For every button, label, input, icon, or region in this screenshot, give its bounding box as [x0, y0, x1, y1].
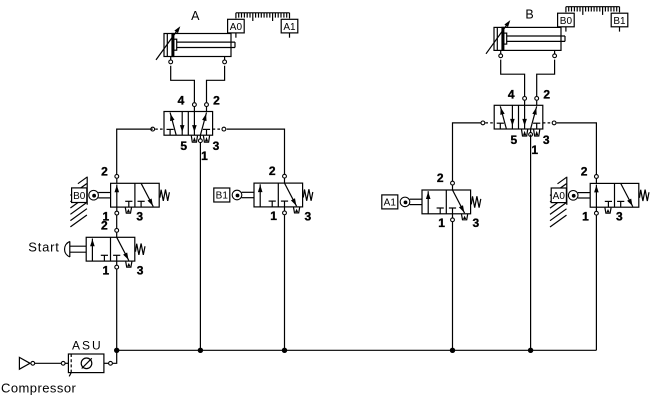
svg-text:1: 1 — [438, 216, 445, 230]
junction bus / A1 port 1 — [450, 348, 455, 353]
svg-text:2: 2 — [213, 94, 220, 108]
svg-text:4: 4 — [508, 88, 515, 102]
valve A0 3/2 roller (actuated) — [550, 165, 649, 228]
wire valve A0 port 1 to supply bus — [595, 215, 597, 350]
wire compressor to ASU — [35, 362, 61, 364]
air service unit ASU — [61, 354, 112, 376]
svg-text:B1: B1 — [613, 16, 626, 27]
svg-text:2: 2 — [543, 88, 550, 102]
cylinder B — [486, 20, 565, 58]
svg-text:3: 3 — [543, 133, 550, 147]
svg-text:2: 2 — [581, 165, 588, 179]
svg-text:2: 2 — [101, 218, 108, 232]
svg-text:5: 5 — [511, 133, 518, 147]
wire V1 left pilot to valve B0 port 2 — [117, 129, 153, 174]
sensor A1 — [281, 19, 298, 37]
ruler B — [566, 7, 620, 15]
svg-text:1: 1 — [270, 209, 277, 223]
svg-text:1: 1 — [102, 263, 109, 277]
svg-text:B0: B0 — [73, 191, 86, 202]
svg-text:3: 3 — [213, 139, 220, 153]
svg-text:4: 4 — [178, 94, 185, 108]
valve V2 5/2 for cylinder B — [481, 88, 556, 157]
valve V1 5/2 for cylinder A — [151, 94, 226, 163]
compressor — [19, 357, 34, 369]
svg-text:3: 3 — [473, 216, 480, 230]
svg-text:5: 5 — [180, 139, 187, 153]
svg-text:3: 3 — [616, 210, 623, 224]
svg-text:A1: A1 — [283, 22, 296, 33]
wire valve B0 port 1 to Start port 2 — [116, 215, 118, 228]
wire cylinder A right port to V1 port 2 — [207, 66, 225, 103]
valve A1 3/2 roller — [382, 171, 481, 230]
svg-text:Compressor: Compressor — [1, 380, 77, 395]
wire V2 right pilot to valve A0 port 2 — [557, 123, 597, 174]
wire valve A1 port 1 to supply bus — [452, 222, 454, 350]
junction bus / ASU / Start — [114, 348, 119, 353]
valve Start 3/2 push-button — [65, 218, 145, 277]
svg-text:Start: Start — [28, 240, 59, 255]
svg-text:1: 1 — [201, 149, 208, 163]
wire V1 right pilot to valve B1 port 2 — [227, 129, 285, 174]
svg-text:3: 3 — [305, 209, 312, 223]
svg-text:B1: B1 — [216, 191, 229, 202]
svg-text:2: 2 — [101, 164, 108, 178]
ruler A — [236, 13, 290, 21]
wire valve B1 port 1 to supply bus — [284, 215, 286, 350]
cylinder A — [156, 26, 235, 64]
supply bus — [117, 349, 597, 351]
svg-text:1: 1 — [531, 143, 538, 157]
wire V1 port 1 to supply bus — [199, 143, 201, 350]
svg-text:A1: A1 — [384, 198, 397, 209]
valve B0 3/2 roller (actuated) — [70, 164, 169, 227]
svg-text:A0: A0 — [230, 22, 243, 33]
svg-text:ASU: ASU — [72, 339, 103, 353]
junction bus / V1 port 1 — [198, 348, 203, 353]
wire V2 left pilot to valve A1 port 2 — [453, 123, 481, 181]
svg-text:B: B — [525, 7, 533, 21]
svg-text:B0: B0 — [560, 16, 573, 27]
sensor B0 — [558, 13, 575, 31]
wire cylinder B right port to V2 port 2 — [537, 60, 555, 96]
wire cylinder B left port to V2 port 4 — [501, 60, 525, 96]
junction bus / V2 port 1 — [528, 348, 533, 353]
svg-text:A: A — [191, 9, 200, 23]
svg-text:1: 1 — [582, 210, 589, 224]
svg-text:2: 2 — [269, 164, 276, 178]
wire V2 port 1 to supply bus — [530, 135, 532, 351]
svg-text:2: 2 — [437, 171, 444, 185]
svg-text:A0: A0 — [553, 191, 566, 202]
svg-text:3: 3 — [137, 264, 144, 278]
sensor B1 — [611, 13, 628, 31]
valve B1 3/2 roller — [214, 164, 313, 223]
wire cylinder A left port to V1 port 4 — [171, 66, 195, 103]
sensor A0 — [228, 19, 245, 37]
wire Start port 1 to supply bus — [116, 269, 118, 350]
svg-text:3: 3 — [136, 210, 143, 224]
junction bus / B1 port 1 — [282, 348, 287, 353]
wire ASU output to supply bus — [113, 350, 117, 363]
